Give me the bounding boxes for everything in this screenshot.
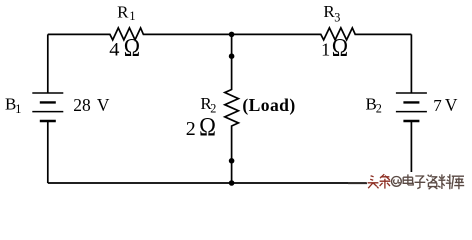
- svg-text:(Load): (Load): [242, 95, 295, 115]
- svg-text:3: 3: [334, 11, 340, 25]
- svg-text:1: 1: [321, 39, 330, 59]
- svg-text:Ω: Ω: [199, 113, 216, 142]
- svg-text:1: 1: [15, 102, 21, 116]
- svg-text:4: 4: [109, 39, 119, 60]
- svg-text:1: 1: [129, 9, 135, 23]
- svg-text:7: 7: [433, 96, 442, 115]
- svg-text:2: 2: [376, 102, 382, 116]
- svg-text:V: V: [445, 95, 458, 115]
- svg-text:28: 28: [73, 95, 91, 115]
- svg-text:V: V: [97, 95, 110, 115]
- svg-text:2: 2: [186, 118, 196, 140]
- svg-text:R: R: [117, 3, 129, 22]
- svg-text:Ω: Ω: [124, 34, 140, 62]
- svg-text:Ω: Ω: [332, 34, 348, 62]
